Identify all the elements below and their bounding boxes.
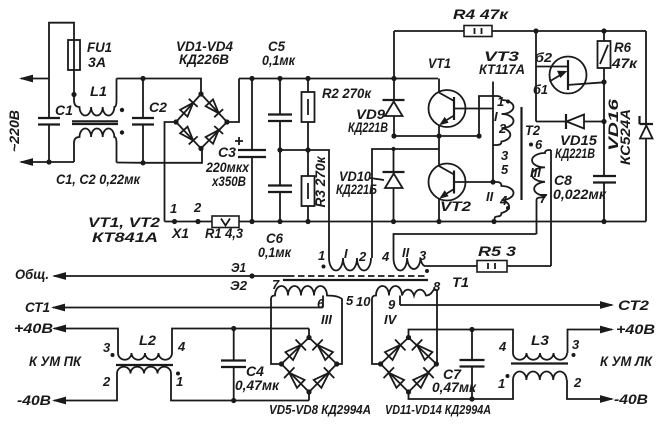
svg-text:47к: 47к — [611, 55, 638, 71]
node T2-I riser junction — [476, 133, 481, 138]
label VD16 rotated — [605, 99, 633, 165]
wire b2 riser — [535, 31, 537, 66]
svg-text:2: 2 — [102, 374, 111, 389]
node R6 top junction — [601, 28, 606, 33]
node C7 top junction — [469, 327, 474, 332]
label E1 E2 — [230, 260, 248, 293]
node VD10 bottom rail — [391, 219, 396, 224]
resistor R3 — [302, 150, 315, 222]
svg-text:4: 4 — [498, 339, 507, 354]
wire R4 to right corner — [492, 30, 646, 32]
svg-text:VT2: VT2 — [440, 198, 471, 214]
label T2-III pins — [529, 137, 548, 206]
capacitor C5 — [268, 79, 292, 151]
svg-text:+40В: +40В — [14, 320, 53, 336]
diode VD15 — [536, 114, 604, 129]
svg-text:СТ1: СТ1 — [25, 299, 50, 315]
svg-text:~220В: ~220В — [6, 110, 22, 152]
capacitor C3 electrolytic — [235, 79, 266, 222]
resistor R2 — [302, 79, 315, 151]
svg-text:2: 2 — [498, 121, 507, 136]
rectifier bridge VD11-VD14 — [378, 335, 439, 395]
node VT2 emitter rail — [436, 219, 441, 224]
svg-text:3: 3 — [501, 148, 509, 163]
svg-text:+40В: +40В — [616, 321, 655, 337]
svg-text:2: 2 — [573, 375, 582, 390]
inductor L2 — [116, 329, 309, 401]
svg-text:Общ.: Общ. — [15, 266, 49, 282]
svg-text:К УМ ПК: К УМ ПК — [29, 353, 82, 369]
svg-text:С1: С1 — [55, 102, 73, 118]
svg-text:I: I — [344, 246, 348, 261]
svg-text:3: 3 — [572, 337, 580, 352]
svg-text:Т2: Т2 — [525, 122, 540, 138]
svg-text:8: 8 — [433, 279, 441, 294]
svg-text:L2: L2 — [139, 332, 156, 348]
svg-text:КД221В: КД221В — [555, 145, 595, 161]
node C6 bottom — [277, 219, 282, 224]
node fuse-L1 junction — [71, 92, 76, 97]
svg-text:3: 3 — [103, 340, 111, 355]
svg-text:КТ841А: КТ841А — [92, 229, 158, 245]
svg-text:5: 5 — [346, 293, 354, 308]
svg-text:3: 3 — [419, 248, 427, 263]
node X1 pin1 — [172, 219, 177, 224]
wire bottom rail — [165, 221, 647, 223]
svg-text:КС524А: КС524А — [617, 109, 633, 165]
core T1 solid — [283, 279, 428, 281]
node C4 bottom junction — [231, 398, 236, 403]
svg-text:5: 5 — [501, 162, 509, 177]
svg-text:0,47мк: 0,47мк — [432, 379, 477, 395]
wire ST2 line with arrow — [400, 301, 614, 309]
capacitor C1 — [38, 79, 60, 163]
node R3 bottom — [305, 219, 310, 224]
node Obsh junction — [249, 273, 254, 278]
SECTION: out right — [378, 297, 655, 417]
winding T2-II — [493, 182, 514, 222]
SECTION: T1 — [271, 243, 551, 364]
node C7 bottom junction — [469, 396, 474, 401]
winding T2-I — [493, 96, 514, 145]
node C1 bottom junction — [46, 159, 51, 164]
resistor R5 — [477, 261, 507, 273]
svg-text:R2 270к: R2 270к — [322, 85, 372, 101]
svg-text:4: 4 — [177, 339, 186, 354]
wire bridge1 minus riser — [308, 392, 310, 401]
svg-text:К УМ ЛК: К УМ ЛК — [600, 353, 653, 369]
svg-text:L3: L3 — [531, 332, 549, 348]
inductor L1 common-mode choke — [72, 79, 118, 163]
svg-text:С2: С2 — [149, 99, 167, 115]
label VD9 — [348, 106, 388, 135]
svg-text:III: III — [321, 312, 332, 327]
svg-text:7: 7 — [540, 191, 548, 206]
svg-text:КД221В: КД221В — [348, 119, 388, 135]
svg-text:6: 6 — [317, 296, 325, 311]
transistor VT3 unijunction — [536, 57, 604, 94]
wire bridge2 plus to +40V right — [409, 326, 615, 353]
svg-text:4: 4 — [499, 193, 508, 208]
capacitor C4 — [221, 329, 246, 401]
rectifier bridge VD5-VD8 — [279, 335, 340, 395]
label VT3 — [479, 48, 525, 77]
node C2 top junction — [140, 76, 145, 81]
resistor R6 — [598, 31, 611, 82]
label C3 value — [205, 144, 250, 189]
capacitor C7 — [460, 330, 485, 400]
wire R4 feed line — [394, 30, 464, 32]
svg-text:0,47мк: 0,47мк — [235, 377, 280, 393]
label C6 — [258, 230, 292, 260]
svg-text:R1 4,3: R1 4,3 — [205, 225, 243, 241]
wire R5 to T2 riser — [507, 265, 551, 267]
label T2 pins 3 5 — [501, 148, 509, 177]
wire VD15 cathode riser — [535, 66, 537, 122]
label X1 pins — [170, 200, 202, 216]
svg-text:0,022мк: 0,022мк — [553, 186, 607, 202]
svg-text:Э2: Э2 — [230, 278, 248, 293]
svg-text:R4 47к: R4 47к — [453, 6, 509, 22]
wire -40V left with arrow — [52, 374, 117, 405]
label L3 pins — [498, 337, 582, 391]
capacitor C2 — [132, 79, 154, 163]
SECTION: halfbridge — [336, 6, 646, 258]
node divider midpoint right — [305, 147, 310, 152]
label C5 — [262, 38, 296, 68]
svg-text:С3: С3 — [218, 144, 236, 160]
winding T1-III secondary — [271, 286, 342, 364]
wire divider midpoint to T1 pin1 riser — [280, 150, 329, 258]
svg-text:2: 2 — [358, 249, 367, 264]
zener VD16 — [640, 31, 654, 222]
winding T1-II primary — [394, 258, 478, 271]
svg-text:0,1мк: 0,1мк — [262, 52, 296, 68]
wire fuse to L1 — [73, 70, 75, 95]
svg-text:VD5-VD8 КД2994А: VD5-VD8 КД2994А — [269, 402, 371, 417]
svg-text:КТ117А: КТ117А — [479, 61, 525, 77]
label VD10 with leader — [336, 168, 384, 197]
label T2-I pins — [494, 94, 510, 136]
svg-text:III: III — [530, 165, 541, 180]
node C8 rail junction — [601, 219, 606, 224]
transistor VT2 — [429, 164, 494, 222]
label R6 — [611, 39, 638, 71]
svg-text:Э1: Э1 — [231, 260, 246, 275]
inductor L3 — [472, 353, 568, 399]
node VD10 top junction — [391, 147, 395, 151]
wire midpoint branch to T1 — [372, 149, 439, 258]
SECTION: input AC — [6, 23, 239, 222]
label VD15 — [555, 132, 597, 161]
svg-text:КД226В: КД226В — [179, 51, 229, 67]
svg-text:VD11-VD14 КД2994А: VD11-VD14 КД2994А — [385, 402, 491, 417]
wire AC bottom arrow — [19, 158, 49, 166]
wire bridge plus riser to bus — [227, 79, 239, 123]
node X1 pin2 — [195, 219, 200, 224]
svg-text:0,1мк: 0,1мк — [258, 244, 292, 260]
wire AC top arrow — [19, 75, 49, 83]
label VT1 VT2 type — [88, 214, 160, 245]
node VD9 bus junction — [391, 76, 396, 81]
wire bridge1 plus riser — [308, 329, 310, 338]
svg-text:9: 9 — [388, 297, 396, 312]
svg-text:С1, С2 0,22мк: С1, С2 0,22мк — [56, 171, 141, 187]
svg-text:R6: R6 — [614, 39, 631, 55]
wire AC top riser to fuse — [49, 23, 74, 79]
svg-text:1: 1 — [498, 376, 505, 391]
svg-text:II: II — [486, 189, 494, 204]
transistor VT1 — [429, 79, 494, 137]
node C4 top junction — [231, 326, 236, 331]
node R2 top junction — [305, 76, 310, 81]
wire AC top to C2 and bridge — [117, 79, 202, 95]
wire T1-IV tap pin9 — [399, 296, 401, 306]
node T2-II rail junction — [491, 219, 496, 224]
label C4 — [235, 363, 280, 393]
wire VT3 emitter to VT2 base — [492, 82, 494, 183]
svg-text:VT1: VT1 — [428, 55, 451, 71]
capacitor C8 — [593, 122, 616, 222]
svg-text:1: 1 — [176, 374, 183, 389]
label T1 pins 5 10 — [346, 293, 371, 309]
SECTION: T2 VT3 — [394, 28, 654, 266]
svg-text:R5 3: R5 3 — [478, 243, 516, 259]
SECTION: bus divider — [88, 38, 646, 260]
svg-text:L1: L1 — [90, 83, 107, 99]
wire T1-III tap pin6 — [322, 296, 324, 308]
SECTION: out left — [14, 260, 371, 417]
svg-text:1: 1 — [318, 248, 325, 263]
svg-text:-40В: -40В — [614, 391, 648, 407]
wire ST1 line with arrow — [51, 304, 323, 312]
svg-text:6: 6 — [535, 137, 543, 152]
node C3 top junction — [249, 76, 254, 81]
wire bridge minus down to X1 rail — [165, 122, 177, 222]
label FU1 3A — [87, 39, 112, 70]
diode VD10 — [383, 149, 405, 222]
svg-text:3А: 3А — [88, 54, 106, 70]
wire T2-III pin6 to R5 riser — [550, 150, 552, 266]
svg-text:FU1: FU1 — [87, 39, 112, 55]
svg-text:б2: б2 — [535, 50, 553, 65]
core T1 dashed — [288, 275, 428, 277]
label VD1-VD4 KD226V — [176, 38, 233, 67]
svg-text:2: 2 — [193, 200, 202, 215]
winding T1-I primary — [329, 258, 371, 271]
node C3 bottom — [249, 219, 254, 224]
capacitor C6 — [268, 150, 292, 222]
fuse FU1 — [68, 40, 80, 70]
label C7 — [432, 366, 477, 395]
svg-text:I: I — [494, 109, 498, 124]
winding T2-III — [532, 150, 551, 234]
wire T2-I top terminal — [479, 96, 497, 136]
wire Obsh line with arrow — [52, 272, 288, 280]
wire T2-III pin7 stepped to T1 pin4 — [394, 234, 537, 258]
core T2 — [520, 107, 522, 200]
node L1 polarity dots — [120, 108, 124, 135]
resistor R4 — [464, 26, 492, 37]
wire +40V left with arrow — [52, 325, 118, 353]
svg-text:X1: X1 — [171, 225, 189, 241]
label T1-I pins — [318, 246, 367, 269]
diode VD9 — [383, 31, 405, 136]
node VD9 anode junction — [391, 133, 396, 138]
node divider midpoint left — [277, 147, 282, 152]
svg-text:VT1, VT2: VT1, VT2 — [88, 214, 160, 230]
wire b1 node down — [603, 82, 605, 122]
svg-text:Т1: Т1 — [452, 274, 469, 290]
svg-text:7: 7 — [272, 277, 280, 292]
wire -40V right with arrow — [409, 380, 615, 403]
svg-text:СТ2: СТ2 — [618, 297, 649, 313]
node VD15 anode junction — [601, 119, 606, 124]
label T1-II pins — [381, 245, 429, 273]
svg-text:10: 10 — [356, 294, 371, 309]
wire midpoint down to VT2 collector — [438, 136, 440, 166]
node VT1 emitter junction — [436, 133, 441, 138]
svg-text:1: 1 — [170, 201, 177, 216]
winding T1-IV secondary — [372, 286, 437, 364]
svg-text:КД221Б: КД221Б — [336, 181, 377, 197]
node b1 junction — [601, 79, 606, 84]
svg-text:IV: IV — [384, 312, 398, 327]
svg-text:х350В: х350В — [211, 173, 246, 189]
resistor R1 — [212, 216, 239, 228]
svg-text:4: 4 — [381, 249, 390, 264]
node b2 bus junction — [533, 28, 538, 33]
svg-text:-40В: -40В — [17, 392, 51, 408]
svg-text:1: 1 — [497, 94, 504, 109]
label C8 — [553, 172, 607, 202]
wire +310V top bus — [239, 78, 438, 80]
wire AC bottom run — [49, 161, 74, 163]
node VT2 base junction — [490, 179, 495, 184]
rectifier bridge VD1-VD4 — [173, 91, 229, 151]
node C5 top junction — [277, 76, 282, 81]
label L2 pins — [102, 339, 186, 389]
svg-text:II: II — [402, 245, 410, 260]
svg-text:R3 270к: R3 270к — [312, 156, 328, 208]
wire C2 bottom to bridge AC2 — [117, 149, 203, 163]
wire midpoint horizontal — [394, 135, 479, 137]
node C2 bottom junction — [140, 160, 145, 165]
label T2-II pins — [486, 189, 510, 210]
